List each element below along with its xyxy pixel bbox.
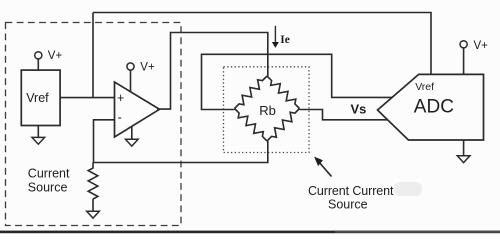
resistor R1 sense — [88, 163, 98, 200]
wire inverting input — [94, 120, 115, 163]
wire Vref output to op-amp + input — [60, 97, 114, 99]
current arrow Ie — [274, 26, 276, 43]
wire V+ stem to op-amp — [130, 70, 132, 92]
svg-text:Rb: Rb — [259, 103, 276, 118]
V+ terminal circle (op-amp supply) — [127, 63, 134, 70]
svg-text:Source: Source — [28, 181, 68, 195]
wire Vref box to ground — [37, 126, 39, 138]
svg-text:Vs: Vs — [351, 102, 367, 117]
dashed box Current Source — [6, 23, 182, 226]
ground (below Vref) — [32, 137, 45, 144]
photo edge bottom bar — [0, 231, 500, 234]
wire resistor to ground — [92, 199, 94, 211]
svg-text:V+: V+ — [140, 62, 155, 74]
ADC U2 pentagon — [378, 74, 484, 140]
wire V+ stem to Vref box — [37, 59, 39, 70]
svg-text:+: + — [117, 91, 124, 105]
resistor bridge edge right-bottom — [267, 109, 300, 142]
wire V+ stem to ADC — [463, 48, 465, 75]
svg-text:Source: Source — [328, 198, 368, 212]
svg-text:Current Current: Current Current — [308, 184, 394, 198]
wire op-amp output up and over to bridge top — [157, 33, 268, 110]
wire feedback node to bridge bottom — [93, 141, 268, 163]
dotted box bridge — [224, 67, 310, 153]
wire node to top rail — [92, 13, 94, 98]
voltage reference U1 box Vref — [21, 70, 60, 125]
svg-text:ADC: ADC — [414, 97, 454, 118]
svg-text:Vref: Vref — [415, 81, 434, 93]
wire ADC to ground — [463, 140, 465, 156]
wire top rail to ADC Vref — [93, 13, 431, 75]
ground (below op-amp) — [126, 139, 139, 146]
svg-text:V+: V+ — [474, 40, 489, 52]
V+ terminal circle (ADC supply) — [460, 41, 467, 48]
watermark smudge — [394, 182, 422, 196]
wire op-amp to ground — [131, 126, 133, 139]
V+ terminal circle (Vref supply) — [35, 52, 42, 59]
svg-text:-: - — [118, 110, 122, 125]
svg-text:Ie: Ie — [280, 34, 290, 46]
wire bridge left vertex to ADC upper input — [202, 54, 393, 109]
resistor bridge edge bottom-left — [235, 109, 268, 142]
svg-text:Vref: Vref — [26, 91, 49, 105]
resistor Rb bridge edge top-right — [267, 76, 300, 109]
op-amp U1 triangle — [115, 82, 160, 137]
svg-text:V+: V+ — [48, 50, 63, 62]
ground (below resistor R1) — [87, 211, 100, 218]
annotation arrow to bridge box — [319, 162, 332, 177]
ground (below ADC) — [457, 156, 470, 163]
wire bridge right vertex to ADC Vs input — [300, 110, 388, 120]
svg-text:Current: Current — [28, 167, 70, 181]
resistor bridge edge left-top — [235, 76, 268, 109]
